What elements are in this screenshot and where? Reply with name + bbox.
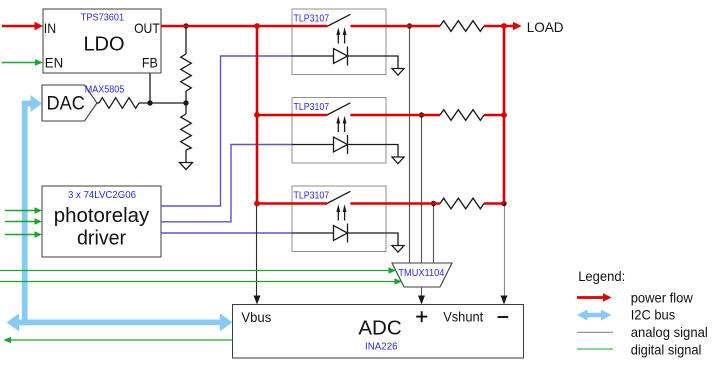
wire LED cathode U3: [348, 145, 399, 158]
digital wire EN arrow into LDO: [2, 62, 36, 64]
switch blade U3: [327, 103, 351, 115]
junction divider mid: [183, 100, 188, 105]
junction right bus row1: [501, 23, 507, 29]
junction sense row 1: [407, 23, 412, 28]
resistor R2 (upper divider): [181, 54, 192, 91]
analog wire mux input 3: [433, 204, 435, 264]
digital wire driver input 1: [5, 210, 36, 212]
svg-text:FB: FB: [142, 55, 158, 71]
LED diode U3: [334, 137, 348, 152]
svg-text:INA226: INA226: [365, 342, 398, 353]
photorelay U3 TLP3107 box (middle): [292, 98, 386, 164]
junction left bus row2: [254, 112, 260, 118]
ADC U8 INA226 box: [233, 305, 524, 359]
svg-text:3 x 74LVC2G06: 3 x 74LVC2G06: [68, 190, 136, 201]
legend analog signal symbol: [577, 331, 613, 333]
switch blade U4: [327, 191, 351, 203]
pin label +: [416, 316, 427, 318]
LED diode U2: [334, 49, 348, 64]
svg-text:analog signal: analog signal: [631, 324, 708, 340]
wire LED anode U2: [292, 55, 334, 57]
wire driver output 3 to photorelay U4 LED: [161, 232, 292, 234]
junction sense row 3: [431, 201, 436, 206]
svg-text:Vbus: Vbus: [241, 309, 271, 325]
svg-text:TLP3107: TLP3107: [294, 102, 330, 113]
DAC U5 MAX5805 symbol: [42, 85, 97, 121]
svg-text:I2C bus: I2C bus: [631, 307, 676, 323]
wire OUT to divider: [185, 26, 187, 54]
power wire LDO OUT to U2 switch: [161, 25, 327, 28]
power wire R4 to load bus: [484, 25, 504, 28]
power wire U4 switch out to R6: [350, 202, 440, 205]
wire LED anode U3: [292, 144, 334, 146]
wire LDO FB to feedback node: [149, 74, 151, 104]
svg-text:LDO: LDO: [83, 33, 124, 55]
svg-text:TLP3107: TLP3107: [294, 190, 330, 201]
resistor R5 (shunt row 2): [440, 110, 484, 121]
svg-text:OUT: OUT: [134, 20, 160, 36]
LDO U1 TPS73601 box: [43, 9, 161, 73]
resistor R4 (shunt row 1): [440, 21, 484, 32]
svg-text:TPS73601: TPS73601: [81, 12, 125, 23]
I2C bus left arrowhead: [7, 314, 20, 332]
junction left bus row1: [254, 23, 260, 29]
wire Vbus sense to ADC: [256, 204, 258, 298]
svg-text:TMUX1104: TMUX1104: [398, 268, 444, 279]
svg-text:MAX5805: MAX5805: [85, 84, 125, 95]
wire DAC output: [97, 102, 99, 104]
power wire R5 to load bus: [484, 114, 504, 117]
light arrows U4: [337, 210, 339, 221]
power wire bus to U3 switch: [257, 114, 327, 117]
svg-text:TLP3107: TLP3107: [294, 13, 330, 24]
svg-text:digital signal: digital signal: [631, 341, 702, 357]
photorelay U2 TLP3107 box (top): [292, 9, 386, 75]
I2C bus vertical wire: [22, 101, 28, 326]
wire driver output 2 to photorelay U3 LED: [161, 145, 292, 222]
wire LED cathode U4: [348, 233, 399, 246]
legend power flow symbol: [577, 296, 604, 299]
photorelay driver U6 74LVC2G06 box: [42, 186, 161, 257]
power wire U3 switch out to R5: [350, 114, 440, 117]
junction sense row 2: [419, 112, 424, 117]
svg-text:ADC: ADC: [358, 316, 401, 339]
wire driver output 1 to photorelay U2 LED: [161, 56, 292, 206]
junction Vshunt- node: [501, 201, 506, 206]
I2C bus wire to DAC: [22, 101, 32, 107]
switch blade U2: [327, 14, 351, 26]
light arrows U2: [337, 33, 339, 44]
svg-text:Legend:: Legend:: [578, 268, 625, 284]
pin label minus: [498, 316, 509, 318]
power wire bus to U4 switch: [257, 202, 327, 205]
wire divider mid: [185, 91, 187, 114]
ground (U2 LED): [392, 69, 404, 76]
svg-text:LOAD: LOAD: [527, 19, 564, 35]
mux U7 TMUX1104 symbol: [392, 263, 452, 287]
analog wire mux output to ADC +: [421, 287, 423, 297]
analog wire mux input 1: [409, 26, 411, 263]
junction feedback node: [147, 100, 152, 105]
junction divider top: [183, 23, 188, 28]
power arrow to LOAD: [504, 25, 514, 28]
wire feedback node: [139, 102, 186, 104]
junction right bus row2: [501, 112, 507, 118]
digital wire mux select A1: [0, 281, 395, 283]
I2C bus arrowhead into DAC: [31, 95, 43, 112]
svg-text:IN: IN: [44, 20, 56, 36]
svg-text:photorelay: photorelay: [54, 205, 149, 227]
legend I2C bus symbol: [585, 313, 603, 317]
wire to ground: [185, 150, 187, 163]
wire LED anode U4: [292, 232, 334, 234]
svg-text:DAC: DAC: [47, 94, 85, 115]
resistor R3 (lower divider): [181, 114, 192, 150]
light arrows U3: [337, 122, 339, 133]
resistor R1 (DAC to feedback node): [99, 98, 139, 109]
I2C bus bottom horizontal wire: [16, 319, 222, 325]
digital wire mux select A0: [0, 270, 389, 272]
ground (U4 LED): [392, 246, 404, 253]
power bus left vertical: [256, 26, 259, 204]
power wire R6 to load bus: [484, 202, 504, 205]
power wire into LDO IN: [2, 25, 36, 28]
ground (divider): [180, 163, 193, 170]
svg-text:driver: driver: [77, 227, 126, 249]
svg-text:EN: EN: [45, 55, 63, 71]
analog wire mux input 2: [421, 115, 423, 263]
power bus right vertical: [503, 26, 506, 204]
ground (U3 LED): [392, 157, 404, 164]
wire LED cathode U2: [348, 56, 399, 69]
svg-text:power flow: power flow: [631, 289, 694, 305]
resistor R6 (shunt row 3): [440, 198, 484, 209]
digital wire driver input 2: [5, 221, 36, 223]
digital wire ADC alert out: [10, 339, 233, 341]
power wire U2 switch out to R4: [350, 25, 440, 28]
svg-text:Vshunt: Vshunt: [443, 309, 483, 325]
legend digital signal symbol: [577, 348, 613, 350]
I2C bus arrowhead into ADC: [220, 314, 233, 332]
junction left bus row3: [254, 201, 260, 207]
LED diode U4: [334, 226, 348, 241]
digital wire driver input 3: [5, 234, 36, 236]
analog wire Vshunt- to ADC: [504, 204, 506, 298]
photorelay U4 TLP3107 box (bottom): [292, 186, 386, 252]
